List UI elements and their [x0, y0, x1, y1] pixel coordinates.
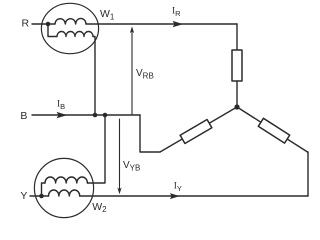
svg-text:IB: IB: [57, 100, 65, 111]
wire Y phase lead-in: [30, 195, 49, 197]
wire R line to load corner: [86, 23, 237, 25]
resistor Y-phase load: [258, 118, 289, 143]
junction dot W1 tap: [46, 22, 51, 27]
junction dot B-W1: [93, 113, 98, 118]
wire W1 pressure-coil drop: [48, 24, 57, 37]
star point node: [234, 104, 239, 109]
wattmeter U W2: [34, 158, 93, 217]
wire R phase lead-in: [32, 23, 55, 25]
junction dot B-W2: [103, 113, 108, 118]
wire W2 pressure coil to B line: [87, 115, 105, 183]
arrowhead V_YB down: [117, 187, 121, 194]
arrowhead V_RB up: [130, 26, 134, 33]
wire Y-load return drop: [307, 152, 310, 196]
svg-text:IY: IY: [174, 182, 182, 193]
resistor B-phase load: [180, 120, 212, 144]
wire B diagonal to star: [160, 107, 237, 152]
arrowhead I_R: [173, 21, 184, 27]
svg-text:R: R: [22, 18, 30, 30]
voltage coil of W1: [57, 32, 93, 37]
svg-text:W2: W2: [92, 201, 107, 214]
wire resistor to star point: [236, 81, 238, 107]
current coil of W1: [55, 18, 86, 24]
wire V_YB indicator shaft: [119, 119, 121, 191]
junction dot W2 tap: [39, 194, 44, 199]
svg-text:W1: W1: [100, 8, 115, 21]
wire Y line: [80, 195, 308, 197]
wire R branch down: [236, 24, 238, 50]
arrowhead I_Y: [170, 193, 180, 199]
svg-text:VRB: VRB: [136, 68, 154, 80]
wire V_RB indicator shaft: [131, 30, 133, 114]
wire W1 pressure coil to B line: [93, 37, 95, 116]
svg-text:B: B: [20, 110, 27, 122]
wire B line: [32, 114, 140, 116]
resistor R-phase load: [232, 50, 242, 81]
wire W2 pressure-coil riser: [42, 183, 46, 196]
svg-text:IR: IR: [172, 7, 181, 18]
current coil of W2: [49, 190, 80, 196]
voltage coil of W2: [45, 177, 87, 183]
wire star to Y-load diagonal: [237, 107, 308, 152]
wattmeter U W1: [41, 3, 98, 53]
svg-text:VYB: VYB: [123, 160, 140, 172]
arrowhead I_B: [57, 112, 68, 118]
wire B branch elbow: [140, 115, 160, 152]
svg-text:Y: Y: [20, 190, 27, 202]
